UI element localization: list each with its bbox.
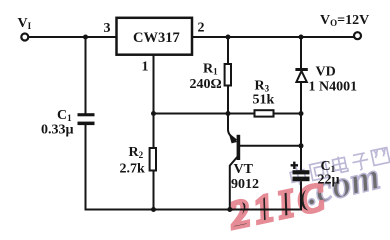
wire: R2 bottom lead	[153, 171, 155, 211]
resistor R2	[150, 148, 156, 171]
resistor R1	[225, 64, 231, 86]
wire: base column	[300, 114, 302, 171]
terminal Vi	[21, 34, 28, 41]
junction: adjust/VD node	[299, 111, 304, 116]
wire: VD top lead	[300, 37, 302, 68]
svg-text:9012: 9012	[231, 177, 259, 192]
wire: VD bottom lead	[300, 83, 302, 114]
wire: R1 top lead	[227, 37, 229, 64]
wire: C1 bottom lead	[85, 125, 87, 211]
wire: adjust rail right	[274, 113, 302, 115]
svg-text:VT: VT	[234, 162, 254, 177]
watermark	[289, 148, 389, 214]
resistor R3	[255, 110, 274, 116]
junction: ground/R2	[151, 207, 156, 212]
capacitor C2 electrolytic	[293, 170, 310, 181]
svg-text:0.33µ: 0.33µ	[41, 123, 74, 138]
junction: ground/VT collector	[227, 207, 232, 212]
wire: R1 bottom lead	[227, 86, 229, 114]
junction: adjust/R2	[151, 111, 156, 116]
terminal Vo	[354, 32, 361, 39]
polarity +	[291, 162, 298, 169]
svg-text:VO=12V: VO=12V	[320, 13, 369, 28]
svg-text:1: 1	[142, 60, 149, 75]
junction: base node	[299, 143, 304, 148]
wire: pin1 lead	[153, 55, 155, 114]
junction: adjust/R1/VT	[226, 111, 231, 116]
wire: adjust rail left	[154, 113, 255, 115]
svg-text:1 N4001: 1 N4001	[309, 80, 358, 95]
wire: C1 top lead	[85, 37, 87, 114]
wire: R2 top lead	[153, 114, 155, 149]
svg-text:3: 3	[104, 21, 111, 36]
svg-text:CW317: CW317	[133, 30, 180, 46]
wire: output rail	[192, 36, 354, 38]
svg-text:51k: 51k	[253, 93, 275, 108]
wire: C2 bottom lead	[300, 181, 302, 210]
transistor Q1 VT	[228, 114, 301, 211]
junction: output/R1	[226, 35, 231, 40]
svg-text:2.7k: 2.7k	[120, 162, 146, 177]
svg-text:240Ω: 240Ω	[190, 77, 222, 92]
svg-text:VD: VD	[316, 65, 336, 80]
op-amp U1: CW317 regulator box	[117, 18, 193, 55]
wire: ground rail	[85, 209, 302, 211]
junction: input node	[83, 35, 88, 40]
capacitor C1	[78, 113, 95, 125]
diode VD	[295, 68, 307, 82]
junction: output/VD	[299, 35, 304, 40]
wire: input rail	[29, 36, 117, 38]
svg-text:2: 2	[198, 21, 205, 36]
svg-text:22µ: 22µ	[318, 173, 340, 188]
